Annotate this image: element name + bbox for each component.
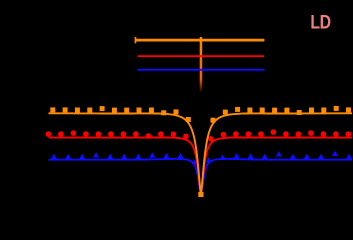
red circle markers <box>46 131 52 137</box>
legend level line orange <box>135 39 264 42</box>
svg-text:LD: LD <box>310 11 331 33</box>
red data curve <box>49 138 353 193</box>
legend vertical transition line <box>200 37 203 93</box>
legend orange left cap <box>135 37 137 43</box>
blue triangle markers <box>51 154 57 159</box>
orange data curve <box>49 113 353 192</box>
legend level line blue <box>138 69 265 71</box>
blue data curve <box>49 159 353 193</box>
legend level line red <box>138 55 265 57</box>
orange square markers <box>50 107 55 112</box>
